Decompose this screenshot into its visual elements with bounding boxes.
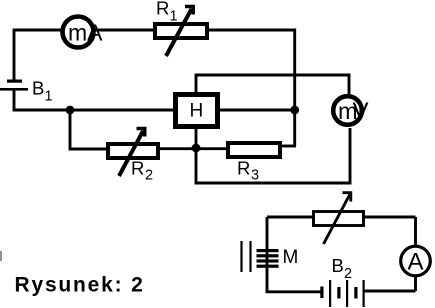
svg-text:M: M bbox=[283, 247, 299, 268]
svg-text:R: R bbox=[156, 0, 169, 19]
wire B2 to ammeter A bottom bbox=[364, 290, 416, 293]
edge artifact bbox=[0, 251, 2, 261]
rheostat (variable resistor, bottom circuit) bbox=[314, 193, 364, 244]
wire H bottom pin to mV bottom bbox=[196, 128, 350, 183]
resistor R2 (variable) bbox=[108, 129, 158, 177]
wire ammeter A bottom vertical bbox=[414, 276, 417, 291]
electromagnet M core plates bbox=[242, 241, 251, 272]
ammeter A bbox=[401, 246, 431, 276]
svg-text:B: B bbox=[332, 255, 344, 276]
wire H top pin to mV top bbox=[196, 75, 349, 94]
svg-text:H: H bbox=[190, 101, 204, 122]
wire bottom circuit top rail left bbox=[267, 216, 313, 219]
wire B1 top to mA bbox=[14, 30, 62, 81]
wire bottom rail left to B2 bbox=[266, 290, 321, 293]
label R1 bbox=[156, 0, 178, 25]
label mV bbox=[338, 98, 369, 125]
wire B1 bottom bbox=[13, 91, 16, 112]
wire R1 to node B (right vertical) bbox=[207, 30, 295, 146]
svg-text:Rysunek: 2: Rysunek: 2 bbox=[15, 274, 145, 297]
wire R2 to R3 bbox=[160, 147, 226, 150]
svg-text:2: 2 bbox=[344, 266, 352, 282]
node A (junction dot left) bbox=[66, 106, 75, 115]
wire mA to R1 bbox=[94, 29, 155, 32]
node C (junction dot center) bbox=[192, 144, 201, 153]
wire H right pin to node B bbox=[220, 109, 295, 112]
resistor R1 (variable) bbox=[155, 7, 207, 57]
resistor R3 bbox=[228, 143, 280, 157]
milliammeter mA bbox=[63, 17, 94, 48]
wire B1 to H left pin bbox=[13, 109, 173, 112]
node B (junction dot right) bbox=[290, 106, 299, 115]
millivoltmeter mV bbox=[333, 96, 362, 125]
wire bottom circuit left vertical bbox=[266, 217, 269, 293]
label B1 bbox=[32, 78, 53, 105]
svg-text:A: A bbox=[408, 249, 424, 276]
probe box H bbox=[176, 95, 218, 127]
battery B1 bbox=[0, 80, 28, 91]
svg-text:1: 1 bbox=[170, 9, 178, 25]
wire node A down to R2 bbox=[70, 110, 106, 149]
wire top rail to ammeter A top bbox=[414, 217, 417, 246]
svg-text:mA: mA bbox=[68, 20, 103, 46]
svg-text:V: V bbox=[353, 98, 369, 125]
svg-text:3: 3 bbox=[251, 168, 259, 184]
wire bottom circuit top rail right bbox=[364, 216, 416, 219]
svg-text:2: 2 bbox=[145, 168, 153, 184]
svg-text:R: R bbox=[131, 158, 144, 179]
label R2 bbox=[131, 158, 153, 184]
svg-text:B: B bbox=[32, 78, 44, 99]
electromagnet M coil bbox=[257, 249, 279, 268]
svg-text:R: R bbox=[237, 158, 250, 179]
label R3 bbox=[237, 158, 259, 184]
label B2 bbox=[332, 255, 353, 282]
svg-text:1: 1 bbox=[45, 89, 53, 105]
battery B2 bbox=[320, 280, 364, 307]
wire R3 right stub bbox=[281, 145, 296, 148]
